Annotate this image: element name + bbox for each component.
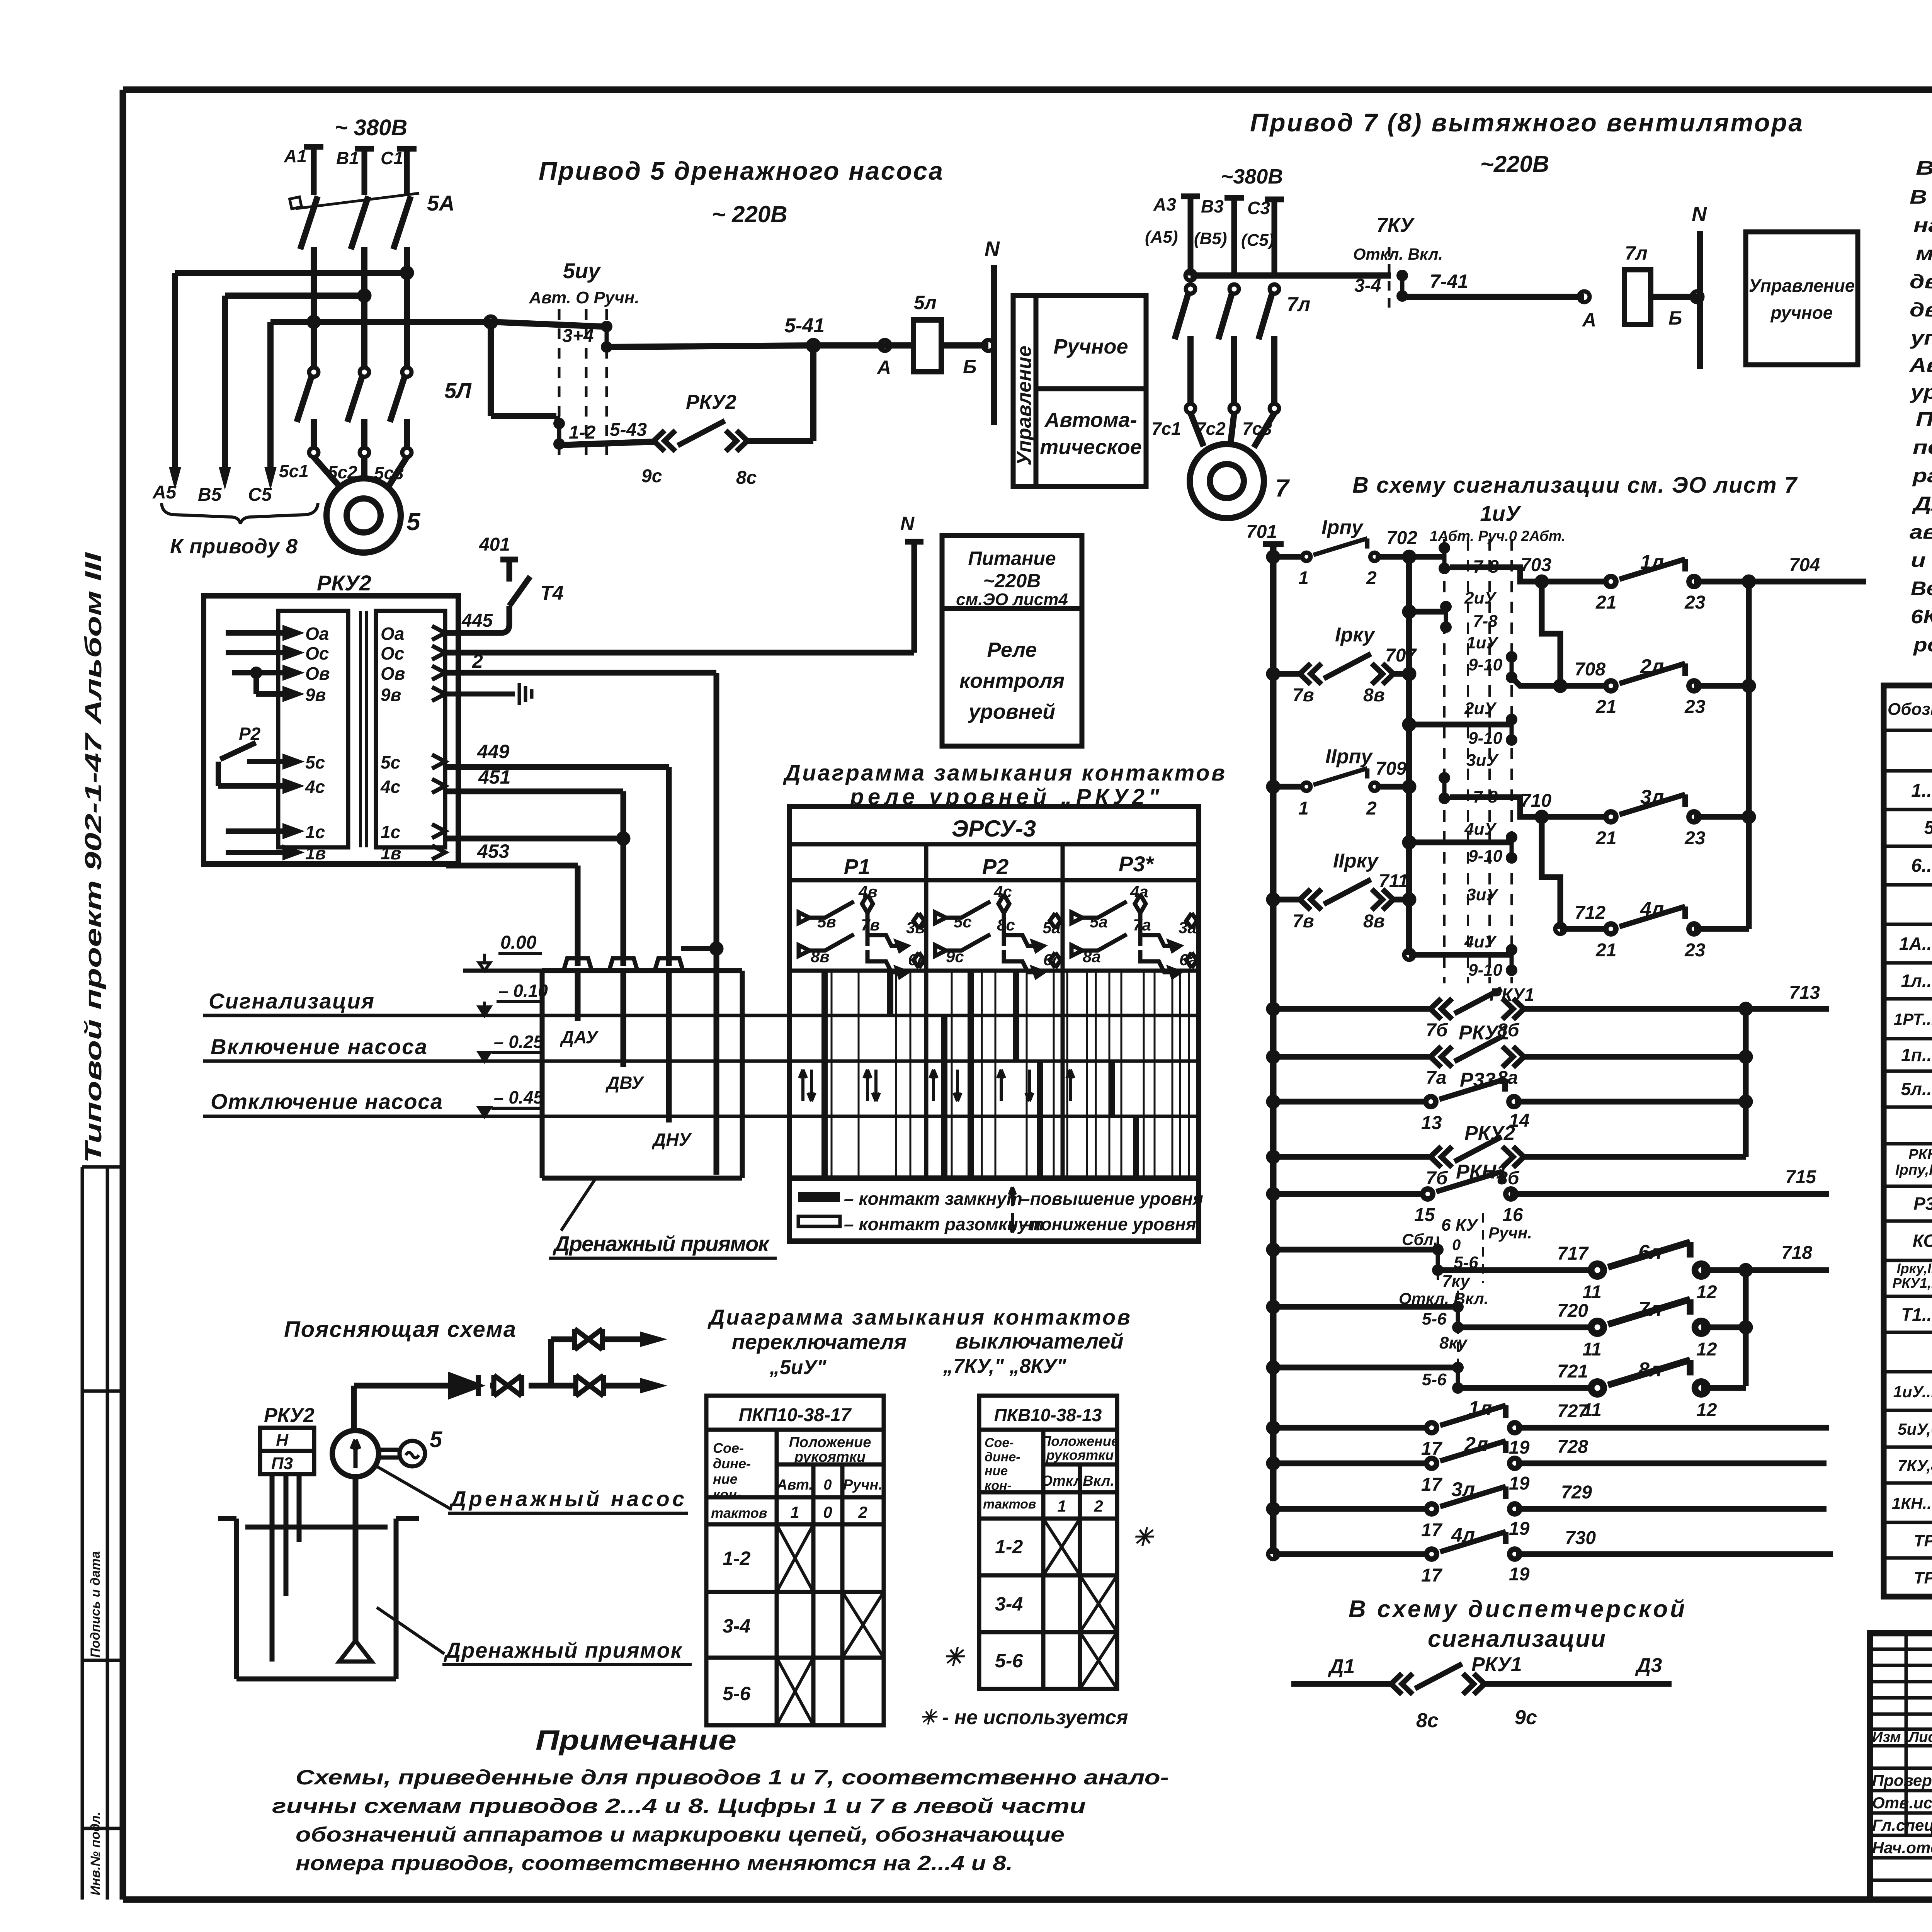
svg-text:9-10: 9-10 [1468, 847, 1503, 866]
svg-text:дине-: дине- [713, 1456, 751, 1471]
svg-text:1-2: 1-2 [995, 1536, 1023, 1558]
legend open sample [798, 1216, 840, 1226]
svg-text:А1: А1 [284, 146, 307, 166]
svg-text:Сое-: Сое- [985, 1435, 1014, 1450]
contact 3-4 (7КУ) [1396, 270, 1408, 302]
svg-text:713: 713 [1789, 983, 1820, 1003]
phase wires below breaker [314, 247, 407, 367]
rung to 6КУ [1268, 1245, 1278, 1255]
wire Ос to N [446, 541, 923, 653]
svg-text:– 0.45: – 0.45 [494, 1087, 544, 1107]
selector stub 4 [1404, 837, 1414, 847]
svg-text:6в: 6в [908, 951, 927, 969]
svg-text:8с: 8с [1416, 1709, 1439, 1732]
diagram thin verticals [832, 971, 1189, 1178]
ЭРСУ table frame [789, 806, 1199, 1178]
svg-text:и ручное, с помощью избират: и ручное, с помощью избирателя 5иУ. [1911, 549, 1932, 571]
rung to 8КУ [1268, 1362, 1278, 1372]
contact 3л [1542, 814, 1612, 820]
svg-text:1-2: 1-2 [723, 1548, 750, 1569]
svg-text:Сигнализация: Сигнализация [209, 989, 374, 1013]
svg-text:1Абт. Руч.0 2Абт.: 1Абт. Руч.0 2Абт. [1430, 528, 1565, 544]
svg-text:момент находится в резерве.: момент находится в резерве. Для насосов … [1916, 242, 1932, 264]
svg-text:7л: 7л [1625, 242, 1648, 264]
Управление ручное box [1746, 232, 1858, 365]
svg-text:– контакт замкнут: – контакт замкнут [844, 1189, 1022, 1209]
svg-text:19: 19 [1509, 1519, 1530, 1539]
rung Iрку [1268, 669, 1278, 679]
svg-text:IIрку: IIрку [1333, 850, 1379, 872]
svg-text:Р33: Р33 [1913, 1194, 1932, 1214]
svg-text:9с: 9с [946, 947, 964, 966]
wire 451 [446, 791, 623, 966]
tap C phase [175, 270, 407, 276]
svg-text:В1: В1 [336, 148, 359, 168]
svg-text:7ку: 7ку [1442, 1272, 1471, 1291]
parts table grid [1884, 685, 1932, 1597]
РКУ2 mid double line [361, 611, 367, 847]
svg-text:рованный режим работы с защ: рованный режим работы с защитой калорифе… [1913, 634, 1932, 656]
wire 445 to Т4 [446, 606, 509, 633]
svg-text:Оа: Оа [381, 624, 404, 644]
wire РКУ2 up to 5-41 [747, 345, 813, 441]
svg-text:кон-: кон- [713, 1486, 742, 1502]
svg-text:Для дренажного насоса 5 преду: Для дренажного насоса 5 предусмотрено дв… [1912, 493, 1932, 515]
svg-text:1иУ: 1иУ [1480, 501, 1521, 526]
svg-text:8в: 8в [811, 947, 830, 966]
svg-text:1л...4л: 1л...4л [1901, 971, 1932, 991]
svg-text:два режима управления („1Ав: два режима управления („1Авт" и „2Авт").… [1910, 299, 1932, 321]
svg-text:1-2: 1-2 [569, 422, 596, 443]
note paragraph [272, 1766, 1169, 1875]
svg-text:4с: 4с [305, 777, 325, 797]
svg-text:РКН1,: РКН1, [1908, 1146, 1932, 1163]
svg-text:717: 717 [1557, 1243, 1589, 1264]
svg-text:автоматическое, в зависимости: автоматическое, в зависимости от уровня … [1910, 521, 1932, 543]
svg-text:Отключение насоса: Отключение насоса [211, 1089, 442, 1114]
selector dots 9-10 (708) [1506, 651, 1517, 683]
svg-text:Р33: Р33 [1460, 1069, 1496, 1091]
svg-text:4с: 4с [993, 883, 1012, 901]
svg-text:Б: Б [963, 356, 976, 378]
svg-text:4иУ: 4иУ [1464, 820, 1497, 838]
riser С5 [267, 322, 274, 479]
svg-text:С5: С5 [248, 485, 272, 505]
svg-text:703: 703 [1520, 555, 1551, 575]
N bus drive5 [991, 265, 997, 425]
svg-text:730: 730 [1565, 1528, 1596, 1548]
svg-text:✳: ✳ [943, 1643, 965, 1671]
svg-text:рукоятки: рукоятки [1046, 1447, 1114, 1463]
svg-text:тическое: тическое [1040, 435, 1142, 459]
svg-text:– 0.25: – 0.25 [494, 1032, 544, 1052]
level line pump off [203, 1115, 1199, 1118]
parts table frame [1884, 685, 1932, 1597]
rung IIрпу [1268, 782, 1278, 792]
table ПКВ10-38-13 [979, 1396, 1117, 1689]
svg-text:2л: 2л [1464, 1433, 1488, 1456]
wire 449 [446, 767, 669, 966]
svg-text:ТР1: ТР1 [1914, 1531, 1932, 1550]
output chevrons [432, 626, 445, 859]
wire to lamp [813, 342, 913, 349]
svg-text:В схему сигнализации см. ЭО ли: В схему сигнализации см. ЭО лист 7 [1352, 473, 1798, 498]
rung to 7КУ [1268, 1302, 1278, 1312]
svg-text:721: 721 [1557, 1361, 1588, 1382]
svg-text:7КУ,8КУ: 7КУ,8КУ [1898, 1456, 1932, 1475]
valve upper [575, 1329, 602, 1350]
svg-text:8в: 8в [1363, 685, 1385, 706]
svg-text:7КУ: 7КУ [1376, 214, 1415, 236]
svg-text:9-10: 9-10 [1468, 729, 1503, 748]
svg-text:1...4: 1...4 [1911, 781, 1932, 801]
svg-text:Р2: Р2 [239, 724, 261, 744]
svg-text:Ос: Ос [305, 643, 329, 663]
svg-text:21: 21 [1595, 592, 1616, 613]
svg-text:23: 23 [1684, 697, 1706, 717]
svg-text:Оа: Оа [305, 624, 329, 644]
contactor 7Л [1175, 284, 1279, 413]
wire 3+4 to 5-41 [607, 345, 813, 347]
svg-text:ТР2: ТР2 [1914, 1568, 1932, 1587]
svg-text:2: 2 [472, 650, 483, 672]
svg-text:23: 23 [1684, 592, 1706, 613]
svg-text:Проверил: Проверил [1872, 1771, 1932, 1789]
svg-text:23: 23 [1684, 940, 1706, 961]
svg-text:Инв.№ подл.: Инв.№ подл. [88, 1811, 103, 1895]
electrode cap 2 [609, 958, 637, 970]
svg-text:1: 1 [790, 1503, 799, 1521]
svg-text:9в: 9в [305, 685, 326, 705]
svg-text:Ов: Ов [381, 663, 405, 684]
svg-text:17: 17 [1421, 1475, 1443, 1495]
selector stub 3 [1404, 719, 1414, 730]
svg-text:Д1: Д1 [1328, 1655, 1355, 1678]
svg-text:1: 1 [1298, 568, 1309, 588]
branch down to 1-2 [491, 322, 559, 423]
svg-text:контроля: контроля [959, 669, 1065, 692]
svg-text:Автоматическое управление осу: Автоматическое управление осуществляется… [1909, 354, 1932, 376]
Питание box [942, 536, 1082, 746]
electrode ДНУ [666, 971, 672, 1122]
svg-text:1иУ...4иУ: 1иУ...4иУ [1893, 1383, 1932, 1401]
svg-text:1: 1 [1298, 798, 1309, 819]
pump circle [332, 1430, 379, 1477]
table ПКП10-38-17 [706, 1396, 884, 1725]
left margin stamp lines [82, 1167, 123, 1900]
ground line [463, 969, 542, 973]
svg-text:2иУ: 2иУ [1464, 588, 1497, 607]
svg-text:При работе насосной станции: При работе насосной станции в автоматиче… [1916, 408, 1932, 430]
svg-text:1с: 1с [381, 822, 400, 842]
svg-text:Положение: Положение [789, 1434, 871, 1451]
electrode cap 3 [655, 958, 683, 970]
svg-text:5с: 5с [381, 752, 400, 772]
svg-text:ДВУ: ДВУ [605, 1073, 645, 1093]
svg-text:8а: 8а [1083, 947, 1101, 966]
svg-text:ЭРСУ-3: ЭРСУ-3 [952, 816, 1036, 842]
svg-text:ДАУ: ДАУ [560, 1027, 599, 1047]
pump suction pipe [353, 1477, 359, 1641]
column A (702) [1406, 557, 1412, 955]
svg-text:Гл.спец.: Гл.спец. [1872, 1816, 1932, 1834]
main pipe [354, 1383, 653, 1389]
svg-text:–понижение уровня: –понижение уровня [1020, 1214, 1196, 1234]
svg-text:5-43: 5-43 [610, 420, 647, 440]
svg-text:7: 7 [1275, 474, 1290, 502]
rung 729 [1268, 1504, 1278, 1514]
wire 704 [1694, 579, 1866, 585]
svg-text:Iрпу: Iрпу [1321, 516, 1364, 539]
svg-text:Управление: Управление [1749, 276, 1855, 296]
svg-text:1КН...4КН: 1КН...4КН [1892, 1494, 1932, 1512]
contact symbols Р2 [935, 895, 1061, 977]
parts table header [1888, 693, 1932, 729]
node 703 [1537, 577, 1547, 587]
svg-text:6...8: 6...8 [1911, 855, 1932, 876]
wire lamp to N [941, 342, 988, 349]
svg-text:уровней в приемных резервуара: уровней в приемных резервуарах, ручное с… [1910, 381, 1932, 403]
svg-text:3иУ: 3иУ [1466, 885, 1499, 904]
bus vertical [1270, 544, 1277, 1554]
svg-text:5-6: 5-6 [995, 1650, 1023, 1672]
svg-text:401: 401 [479, 534, 510, 555]
right pin labels [380, 624, 405, 863]
svg-text:5л: 5л [914, 292, 937, 313]
tie bus 2 [1743, 1009, 1749, 1157]
svg-text:В работе находится один резерв: В работе находится один резервуар и два … [1910, 186, 1932, 208]
svg-text:Авт. О Ручн.: Авт. О Ручн. [529, 288, 639, 307]
rung РКУ1 7а8а [1268, 1052, 1278, 1062]
wire 1с [446, 836, 623, 842]
svg-text:N: N [900, 513, 915, 534]
svg-text:Нач.отд.: Нач.отд. [1872, 1838, 1932, 1857]
motor leads 7 [1190, 413, 1274, 447]
relay coil 7л [1624, 270, 1651, 325]
svg-text:выключателей: выключателей [955, 1329, 1123, 1353]
tumbler Т4 [509, 577, 530, 606]
svg-text:РКУ2: РКУ2 [686, 391, 736, 413]
rung 730 [1268, 1549, 1278, 1559]
svg-text:1л: 1л [1468, 1397, 1492, 1420]
svg-text:„5иУ": „5иУ" [769, 1356, 827, 1379]
svg-text:К приводу 8: К приводу 8 [170, 535, 298, 558]
svg-text:Iрпу,IIрпу: Iрпу,IIрпу [1895, 1162, 1932, 1178]
brace К приводу 8 [162, 503, 318, 524]
svg-text:IIрпу: IIрпу [1325, 745, 1373, 768]
svg-text:Управление: Управление [1013, 346, 1036, 466]
rung 720 [1458, 1325, 1599, 1330]
svg-text:см.ЭО лист4: см.ЭО лист4 [956, 590, 1068, 609]
generator symbol [379, 1450, 400, 1458]
svg-text:7а: 7а [1426, 1068, 1446, 1088]
svg-text:3в: 3в [906, 918, 925, 937]
svg-text:(С5): (С5) [1241, 231, 1274, 250]
svg-text:Ручн.: Ручн. [1488, 1224, 1532, 1242]
svg-text:9с: 9с [1515, 1706, 1537, 1729]
svg-text:3л: 3л [1451, 1478, 1475, 1501]
svg-text:19: 19 [1509, 1473, 1530, 1494]
svg-text:1: 1 [1057, 1497, 1066, 1515]
valve mid [494, 1375, 522, 1396]
svg-text:3-4: 3-4 [995, 1593, 1023, 1615]
svg-text:7-8: 7-8 [1473, 612, 1498, 631]
svg-text:В5: В5 [198, 485, 222, 505]
rung IIрку [1268, 895, 1278, 905]
svg-text:Ов: Ов [305, 663, 330, 684]
svg-text:712: 712 [1575, 903, 1605, 923]
svg-text:N: N [985, 237, 1000, 260]
svg-text:Схемы, приведенные для приво: Схемы, приведенные для приводов 1 и 7, с… [296, 1766, 1169, 1789]
contact 4л [1560, 926, 1612, 932]
svg-text:5-6: 5-6 [723, 1683, 751, 1704]
label Дренажный насос [377, 1466, 451, 1509]
svg-text:16: 16 [1502, 1205, 1523, 1225]
svg-text:Т4: Т4 [540, 582, 564, 604]
svg-text:Привод 5 дренажного насоса: Привод 5 дренажного насоса [539, 156, 943, 185]
svg-text:N: N [1692, 202, 1707, 226]
svg-text:Ручн.: Ручн. [843, 1477, 883, 1493]
node 5-41 [808, 340, 819, 351]
svg-text:5в: 5в [817, 913, 836, 931]
svg-text:С1: С1 [381, 148, 403, 168]
rung РКН1 715 [1268, 1189, 1278, 1199]
svg-text:Обозначен: Обозначен [1888, 700, 1932, 719]
svg-text:тактов: тактов [711, 1505, 767, 1521]
РКУ2 inner right box [376, 611, 445, 847]
svg-text:– 0.10: – 0.10 [498, 981, 548, 1001]
svg-text:17: 17 [1421, 1520, 1443, 1541]
svg-text:рукоятки: рукоятки [794, 1449, 866, 1465]
svg-text:7л: 7л [1287, 293, 1310, 316]
svg-text:Питание: Питание [968, 548, 1056, 569]
label Дренажный приямок (pit) [561, 1179, 595, 1231]
svg-text:21: 21 [1595, 940, 1616, 961]
diagram arrows up/down [799, 1070, 1074, 1101]
svg-text:управления осуществляется и: управления осуществляется избирателями у… [1909, 327, 1932, 349]
svg-text:5с1: 5с1 [279, 461, 309, 481]
rung 727 [1268, 1423, 1278, 1433]
svg-text:5а: 5а [1090, 913, 1108, 931]
svg-text:1с: 1с [305, 822, 325, 842]
svg-text:0: 0 [1452, 1236, 1461, 1253]
svg-text:А5: А5 [152, 482, 177, 503]
svg-text:Дренажный приямок: Дренажный приямок [444, 1638, 683, 1662]
svg-text:19: 19 [1509, 1437, 1530, 1458]
riser В5 [222, 296, 228, 479]
tap A phase / control feed [270, 319, 491, 325]
svg-text:0: 0 [823, 1503, 832, 1521]
upper discharge pipe [551, 1339, 634, 1386]
selector dashed columns 1иУ [1444, 539, 1512, 983]
jog 710 to 712 [1542, 817, 1560, 929]
svg-text:Примечание: Примечание [536, 1725, 736, 1756]
tie bus right [1746, 582, 1752, 929]
svg-text:0.00: 0.00 [500, 932, 537, 953]
rung РКУ2 [1268, 1152, 1278, 1162]
svg-text:5иУ,6КУ: 5иУ,6КУ [1898, 1420, 1932, 1438]
svg-text:8л: 8л [1638, 1359, 1662, 1381]
svg-text:5-41: 5-41 [784, 315, 825, 337]
svg-text:2л: 2л [1640, 655, 1664, 678]
contact 3+4 [601, 321, 612, 353]
svg-text:уровней: уровней [968, 700, 1055, 723]
node 712 [1555, 924, 1565, 934]
terminal С3(С5) [1265, 199, 1284, 276]
legend box [789, 1178, 1199, 1241]
svg-text:1в: 1в [381, 843, 401, 863]
svg-text:715: 715 [1785, 1167, 1816, 1187]
svg-text:(А5): (А5) [1145, 228, 1178, 247]
svg-text:7в: 7в [861, 916, 880, 934]
selector stub 5 [1404, 950, 1414, 960]
rung1 through selector [1439, 542, 1450, 574]
svg-text:4л: 4л [1640, 898, 1664, 920]
svg-text:11: 11 [1582, 1282, 1602, 1303]
level line signal [203, 1014, 1199, 1017]
svg-text:5с: 5с [305, 752, 325, 772]
svg-text:1РТ...4РТ: 1РТ...4РТ [1894, 1010, 1932, 1028]
svg-text:4иУ: 4иУ [1464, 932, 1497, 951]
svg-text:720: 720 [1557, 1301, 1588, 1321]
svg-text:В проекте предусмотрено два: В проекте предусмотрено два приемных рез… [1916, 157, 1932, 179]
svg-text:РКУ1: РКУ1 [1471, 1653, 1522, 1676]
svg-text:709: 709 [1376, 759, 1406, 779]
svg-text:Изм: Изм [1872, 1729, 1901, 1745]
terminal C1 [397, 149, 417, 195]
terminal А3(А5) [1181, 196, 1200, 276]
contact symbols Р3 [1071, 895, 1197, 977]
svg-text:Ос: Ос [381, 643, 404, 663]
РКУ2 inner left box [278, 611, 348, 847]
svg-text:Положение: Положение [1041, 1433, 1119, 1449]
svg-text:Отв.исп.: Отв.исп. [1872, 1794, 1932, 1812]
motor M5 [327, 478, 401, 553]
svg-text:ПКП10-38-17: ПКП10-38-17 [739, 1405, 852, 1425]
svg-text:Н: Н [276, 1431, 289, 1450]
svg-text:453: 453 [477, 840, 510, 862]
svg-text:Р1: Р1 [844, 854, 871, 879]
svg-text:Реле: Реле [987, 638, 1037, 662]
input arrows left [218, 629, 297, 857]
svg-text:3-4: 3-4 [723, 1615, 750, 1637]
svg-text:Сое-: Сое- [713, 1440, 744, 1456]
svg-text:1в: 1в [305, 843, 326, 863]
svg-text:Автома-: Автома- [1044, 408, 1137, 432]
svg-text:✳: ✳ [1132, 1523, 1155, 1551]
svg-text:5А: 5А [427, 191, 455, 215]
svg-text:2: 2 [1366, 568, 1377, 588]
common electrode link [681, 946, 716, 951]
motor leads [314, 457, 407, 486]
svg-text:12: 12 [1696, 1400, 1717, 1420]
svg-text:Поясняющая схема: Поясняющая схема [284, 1317, 516, 1342]
jog 703 to 708 [1542, 582, 1560, 686]
svg-text:Привод 7 (8) вытяжного вентиля: Привод 7 (8) вытяжного вентилятора [1250, 108, 1803, 137]
Управление box drive5 [1013, 296, 1146, 486]
diagram thick bars [825, 971, 1136, 1178]
svg-text:РКУ2: РКУ2 [1464, 1122, 1515, 1145]
svg-text:6л: 6л [1638, 1241, 1662, 1264]
left pin labels [305, 624, 330, 863]
svg-text:Iрку: Iрку [1335, 624, 1376, 646]
svg-text:701: 701 [1246, 522, 1277, 542]
svg-text:~220В: ~220В [983, 570, 1041, 592]
svg-text:Авт.: Авт. [776, 1477, 813, 1493]
svg-text:704: 704 [1789, 555, 1820, 575]
svg-text:3+4: 3+4 [562, 326, 594, 346]
svg-text:711: 711 [1379, 871, 1408, 891]
